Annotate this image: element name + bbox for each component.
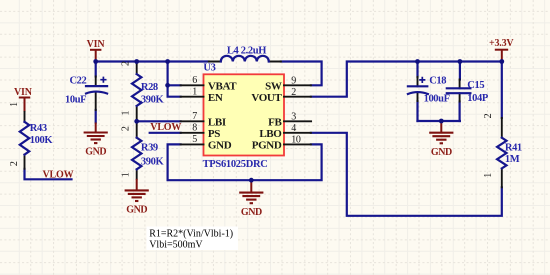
wire C18 bottom stem — [416, 101, 418, 121]
wire C18 top stem — [416, 62, 418, 78]
capacitor C22 10uF leads — [95, 77, 97, 111]
junction +3.3V rail at C15 — [458, 59, 463, 64]
svg-text:+3.3V: +3.3V — [489, 38, 514, 49]
svg-text:VLOW: VLOW — [150, 122, 181, 133]
svg-text:6: 6 — [192, 75, 197, 86]
inductor L4 leads — [209, 61, 281, 63]
svg-text:GND: GND — [85, 147, 106, 158]
svg-text:7: 7 — [192, 111, 197, 122]
C22 plate positive — [86, 85, 107, 87]
svg-text:1M: 1M — [505, 154, 520, 165]
svg-text:1: 1 — [121, 172, 132, 177]
junction VBAT branch — [165, 83, 170, 88]
wire VIN rail to inductor — [96, 60, 209, 62]
svg-text:8: 8 — [192, 123, 197, 134]
junction +3.3V rail at R41 — [499, 59, 504, 64]
svg-text:2: 2 — [121, 126, 132, 131]
svg-text:4: 4 — [291, 123, 296, 134]
wire C22 top stem — [95, 62, 97, 77]
svg-text:VOUT: VOUT — [251, 92, 282, 104]
svg-text:Vlbi=500mV: Vlbi=500mV — [149, 240, 203, 251]
R28 body — [132, 74, 141, 106]
ground for C18 C15 — [440, 121, 442, 133]
capacitor C18 100uF leads — [417, 77, 419, 101]
svg-text:R39: R39 — [141, 143, 158, 154]
resistor R43 100K leads — [24, 112, 26, 169]
svg-text:C22: C22 — [70, 76, 87, 87]
svg-text:R28: R28 — [141, 82, 158, 93]
svg-text:C15: C15 — [467, 80, 484, 91]
svg-text:2: 2 — [291, 87, 296, 98]
svg-text:LBI: LBI — [208, 117, 226, 129]
R39 body — [132, 138, 141, 170]
R41 body — [497, 138, 506, 169]
svg-text:2: 2 — [9, 161, 20, 166]
power port +3.3V — [495, 50, 508, 62]
svg-text:R41: R41 — [505, 143, 522, 154]
svg-text:10: 10 — [291, 135, 301, 146]
svg-text:2: 2 — [121, 61, 132, 66]
wire LBO to R41 bottom — [311, 133, 502, 216]
svg-text:100uF: 100uF — [424, 93, 450, 104]
wire VBAT/EN drop — [168, 62, 181, 97]
svg-text:VLOW: VLOW — [43, 169, 74, 180]
svg-text:GND: GND — [126, 205, 147, 216]
wire PS VLOW stub — [150, 132, 181, 134]
svg-text:GND: GND — [208, 140, 232, 152]
junction rail at R28 — [134, 59, 139, 64]
junction VIN rail at C22 — [93, 59, 98, 64]
svg-text:R1=R2*(Vin/Vlbi-1): R1=R2*(Vin/Vlbi-1) — [149, 229, 233, 240]
wire SW node: inductor to SW pin — [281, 62, 322, 86]
junction rail at VBAT drop — [165, 59, 170, 64]
pin 3 FB stub lead — [284, 120, 311, 122]
svg-text:104P: 104P — [467, 93, 489, 104]
svg-text:PS: PS — [208, 128, 220, 140]
wire C15 top stem — [459, 62, 461, 80]
resistor R39 390K leads — [136, 121, 138, 179]
svg-text:3: 3 — [291, 112, 296, 123]
svg-text:1: 1 — [121, 111, 132, 116]
C18 plus sign — [419, 77, 425, 83]
wire VOUT to +3.3V rail — [311, 62, 502, 97]
junction IC ground bus — [249, 178, 254, 183]
IC U3 TPS61025DRC body — [204, 74, 285, 155]
wire C18 C15 bottom bus — [418, 120, 460, 122]
svg-text:TPS61025DRC: TPS61025DRC — [203, 159, 268, 170]
svg-text:9: 9 — [291, 76, 296, 87]
wire R43 bottom VLOW — [25, 169, 72, 180]
svg-text:GND: GND — [431, 147, 452, 158]
power port VIN top — [90, 50, 101, 62]
pins 4 and 10 leads — [284, 133, 311, 145]
junction cap ground bus — [439, 119, 444, 124]
wire C22 bottom stem — [95, 110, 97, 123]
svg-text:VBAT: VBAT — [208, 81, 237, 93]
resistor R28 390K leads — [136, 62, 138, 122]
svg-text:390K: 390K — [141, 94, 165, 105]
svg-text:EN: EN — [208, 92, 223, 104]
power port VIN left — [19, 98, 30, 113]
C15 plates — [447, 88, 471, 93]
junction R28/R39/LBI node — [134, 119, 139, 124]
svg-text:1: 1 — [192, 87, 197, 98]
svg-text:100K: 100K — [30, 135, 54, 146]
pins 9 and 2 leads — [284, 85, 311, 96]
svg-text:10uF: 10uF — [65, 95, 86, 106]
junction +3.3V rail at C18 — [415, 59, 420, 64]
C18 plate positive — [408, 85, 427, 87]
svg-text:5: 5 — [192, 134, 197, 145]
ground for C22 — [95, 123, 97, 133]
note text frame — [147, 227, 239, 251]
svg-text:FB: FB — [268, 117, 282, 129]
pins left side leads — [181, 85, 204, 144]
svg-text:1: 1 — [9, 102, 20, 107]
ground for R39 — [136, 179, 138, 191]
svg-text:2: 2 — [483, 113, 494, 118]
svg-text:VIN: VIN — [14, 87, 33, 98]
svg-text:1: 1 — [483, 173, 494, 178]
C22 plus sign — [100, 77, 106, 83]
R43 body — [20, 122, 29, 155]
C18 plate curved — [408, 92, 428, 94]
C22 plate curved — [86, 92, 107, 94]
wire GND pin5 to ground bus to PGND — [168, 144, 322, 180]
svg-text:390K: 390K — [141, 157, 165, 168]
svg-text:L4 2.2uH: L4 2.2uH — [227, 45, 266, 56]
wire R41 top — [501, 62, 503, 118]
capacitor C15 104P leads — [459, 80, 461, 102]
wire LBI to R28/R39 node — [137, 120, 181, 122]
svg-text:R43: R43 — [30, 123, 47, 134]
svg-text:LBO: LBO — [259, 128, 282, 140]
svg-text:PGND: PGND — [252, 140, 282, 152]
wire C15 bottom stem — [459, 102, 461, 122]
svg-text:GND: GND — [241, 207, 262, 218]
svg-text:VIN: VIN — [87, 39, 106, 50]
ground for IC bus — [250, 180, 252, 192]
inductor L4 humps — [221, 56, 269, 62]
resistor R41 1M leads — [501, 118, 503, 187]
svg-text:SW: SW — [265, 81, 282, 93]
svg-text:C18: C18 — [429, 75, 446, 86]
svg-text:U3: U3 — [203, 63, 215, 74]
